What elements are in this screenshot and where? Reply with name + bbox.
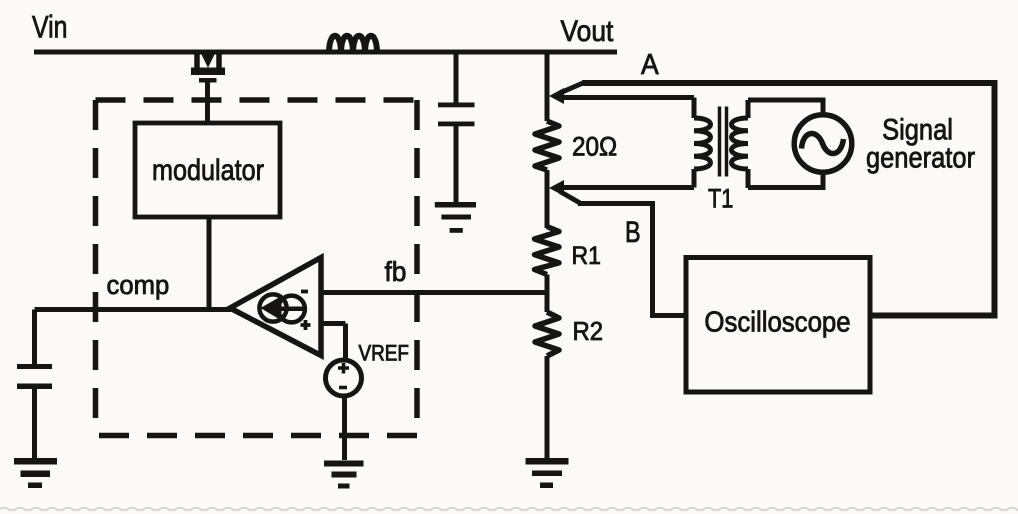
source signal generator: [794, 115, 852, 173]
wire 20 ohm to lower node: [545, 170, 550, 228]
wire arrow A to transformer primary top: [560, 95, 694, 100]
wire comp rail: [35, 307, 232, 312]
ground (comp cap): [14, 458, 57, 488]
inductor L1: [329, 36, 377, 53]
oscilloscope box: [686, 258, 870, 393]
ground (R2): [526, 458, 569, 488]
svg-text:R1: R1: [572, 242, 601, 270]
ground (output cap): [435, 202, 476, 233]
svg-text:comp: comp: [107, 269, 170, 300]
ground (VREF): [324, 461, 364, 489]
svg-text:T1: T1: [708, 185, 733, 215]
modulator block: [135, 123, 280, 217]
wire secondary to signal generator: [748, 100, 823, 188]
svg-text:A: A: [641, 48, 659, 80]
node A arrow: [549, 88, 564, 104]
resistor R2: [535, 312, 559, 356]
svg-text:generator: generator: [866, 141, 975, 174]
svg-text:fb: fb: [385, 255, 407, 287]
transformer T1 secondary: [732, 100, 749, 188]
wire arrow B to transformer primary bottom: [560, 185, 694, 190]
resistor 20 ohm injection: [535, 121, 559, 170]
svg-text:modulator: modulator: [152, 153, 264, 187]
wire output cap branch: [454, 52, 459, 103]
op-amp U1 error amplifier: [230, 258, 321, 356]
dashed control-IC box: [96, 100, 418, 436]
capacitor Cout: [438, 103, 475, 127]
wire modulator to comp node: [207, 217, 212, 309]
op-amp plus input mark: [301, 320, 311, 330]
node B arrow: [549, 180, 564, 196]
op-amp internal source symbol: [259, 294, 306, 322]
svg-text:Vin: Vin: [32, 10, 68, 46]
wire comp cap to ground: [32, 389, 37, 459]
svg-text:B: B: [625, 215, 641, 248]
wire Vout node down: [545, 52, 550, 121]
transformer T1 primary: [694, 98, 711, 188]
svg-text:Vout: Vout: [561, 13, 614, 47]
capacitor comp: [17, 364, 52, 389]
transformer T1 core: [720, 107, 727, 177]
wire cap to ground: [454, 126, 459, 202]
wire R2 to ground: [545, 356, 550, 459]
wire comp cap branch: [32, 310, 37, 365]
wire VREF to ground: [342, 398, 347, 461]
svg-text:20Ω: 20Ω: [572, 132, 617, 161]
wire top rail Vin to Vout: [34, 50, 617, 55]
svg-text:R2: R2: [573, 317, 604, 346]
wire gate to modulator: [205, 82, 210, 123]
svg-text:Oscilloscope: Oscilloscope: [704, 305, 850, 338]
wire line A to oscilloscope right: [582, 83, 995, 316]
scan artifact strip: [0, 508, 1018, 511]
wire line B to oscilloscope left: [578, 204, 686, 316]
wire R1 to fb node: [545, 275, 550, 313]
wire op-amp plus input to VREF: [321, 324, 346, 359]
svg-text:VREF: VREF: [359, 341, 409, 366]
wire fb: op-amp minus input to divider: [321, 290, 547, 295]
source VREF: [326, 360, 362, 396]
op-amp minus input mark: [301, 290, 308, 294]
transistor Q1 (MOSFET switch): [191, 52, 225, 83]
resistor R1: [535, 227, 560, 275]
